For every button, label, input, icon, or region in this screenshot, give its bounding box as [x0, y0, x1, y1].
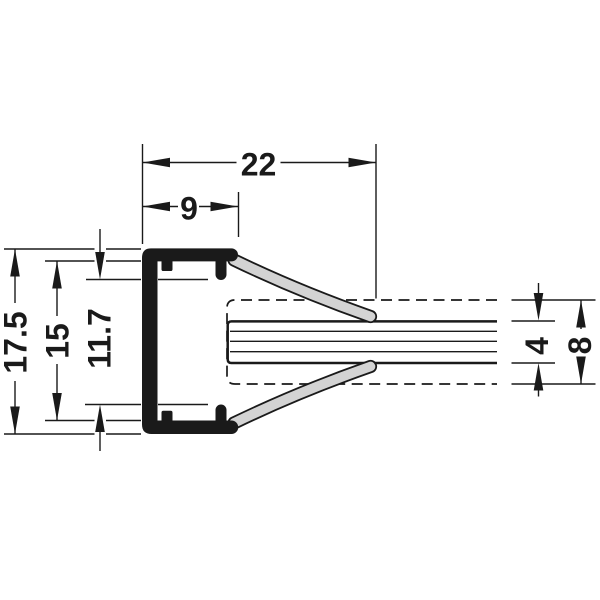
glass hatch line 3 [230, 351, 497, 353]
svg-text:9: 9 [180, 191, 198, 227]
extension line 22 left [142, 144, 144, 244]
extension line 8 top [512, 299, 596, 301]
dimension 4 [519, 283, 555, 397]
extension line 15 top [45, 260, 141, 262]
bottom square tab [162, 411, 173, 421]
aluminium C-profile body [142, 248, 238, 434]
glass hatch line 1 [230, 330, 497, 332]
glass hatch line 2 [230, 340, 497, 342]
svg-text:22: 22 [241, 147, 277, 183]
dimension 9 [143, 191, 239, 227]
top square tab [162, 261, 173, 271]
extension line 17.5 top [4, 248, 141, 250]
dimension 15 [40, 261, 76, 421]
extension line 11.7 bottom [85, 404, 208, 406]
svg-text:8: 8 [562, 337, 598, 355]
svg-text:17.5: 17.5 [0, 311, 34, 373]
svg-text:15: 15 [40, 323, 76, 359]
dimension 22 [143, 147, 377, 183]
bottom sealing lip [234, 367, 371, 424]
top drop tab [216, 261, 227, 280]
svg-text:11.7: 11.7 [82, 308, 118, 369]
dashed seal outline (8mm) [227, 300, 497, 384]
extension line 8 bottom [512, 383, 596, 385]
dimension 11.7 [82, 229, 118, 451]
extension line 17.5 bottom [4, 433, 141, 435]
glass panel body [228, 321, 497, 363]
extension line 11.7 top [86, 279, 208, 281]
dimension 8 [562, 300, 598, 384]
extension line 22 right [375, 144, 377, 299]
extension line 4 bottom [512, 362, 556, 364]
extension line 4 top [512, 320, 556, 322]
extension line 9 right [238, 192, 240, 237]
top sealing lip [234, 260, 371, 317]
dimension 17.5 [0, 249, 34, 434]
svg-text:4: 4 [519, 337, 555, 355]
bottom drop tab [216, 405, 227, 421]
extension line 15 bottom [45, 420, 141, 422]
